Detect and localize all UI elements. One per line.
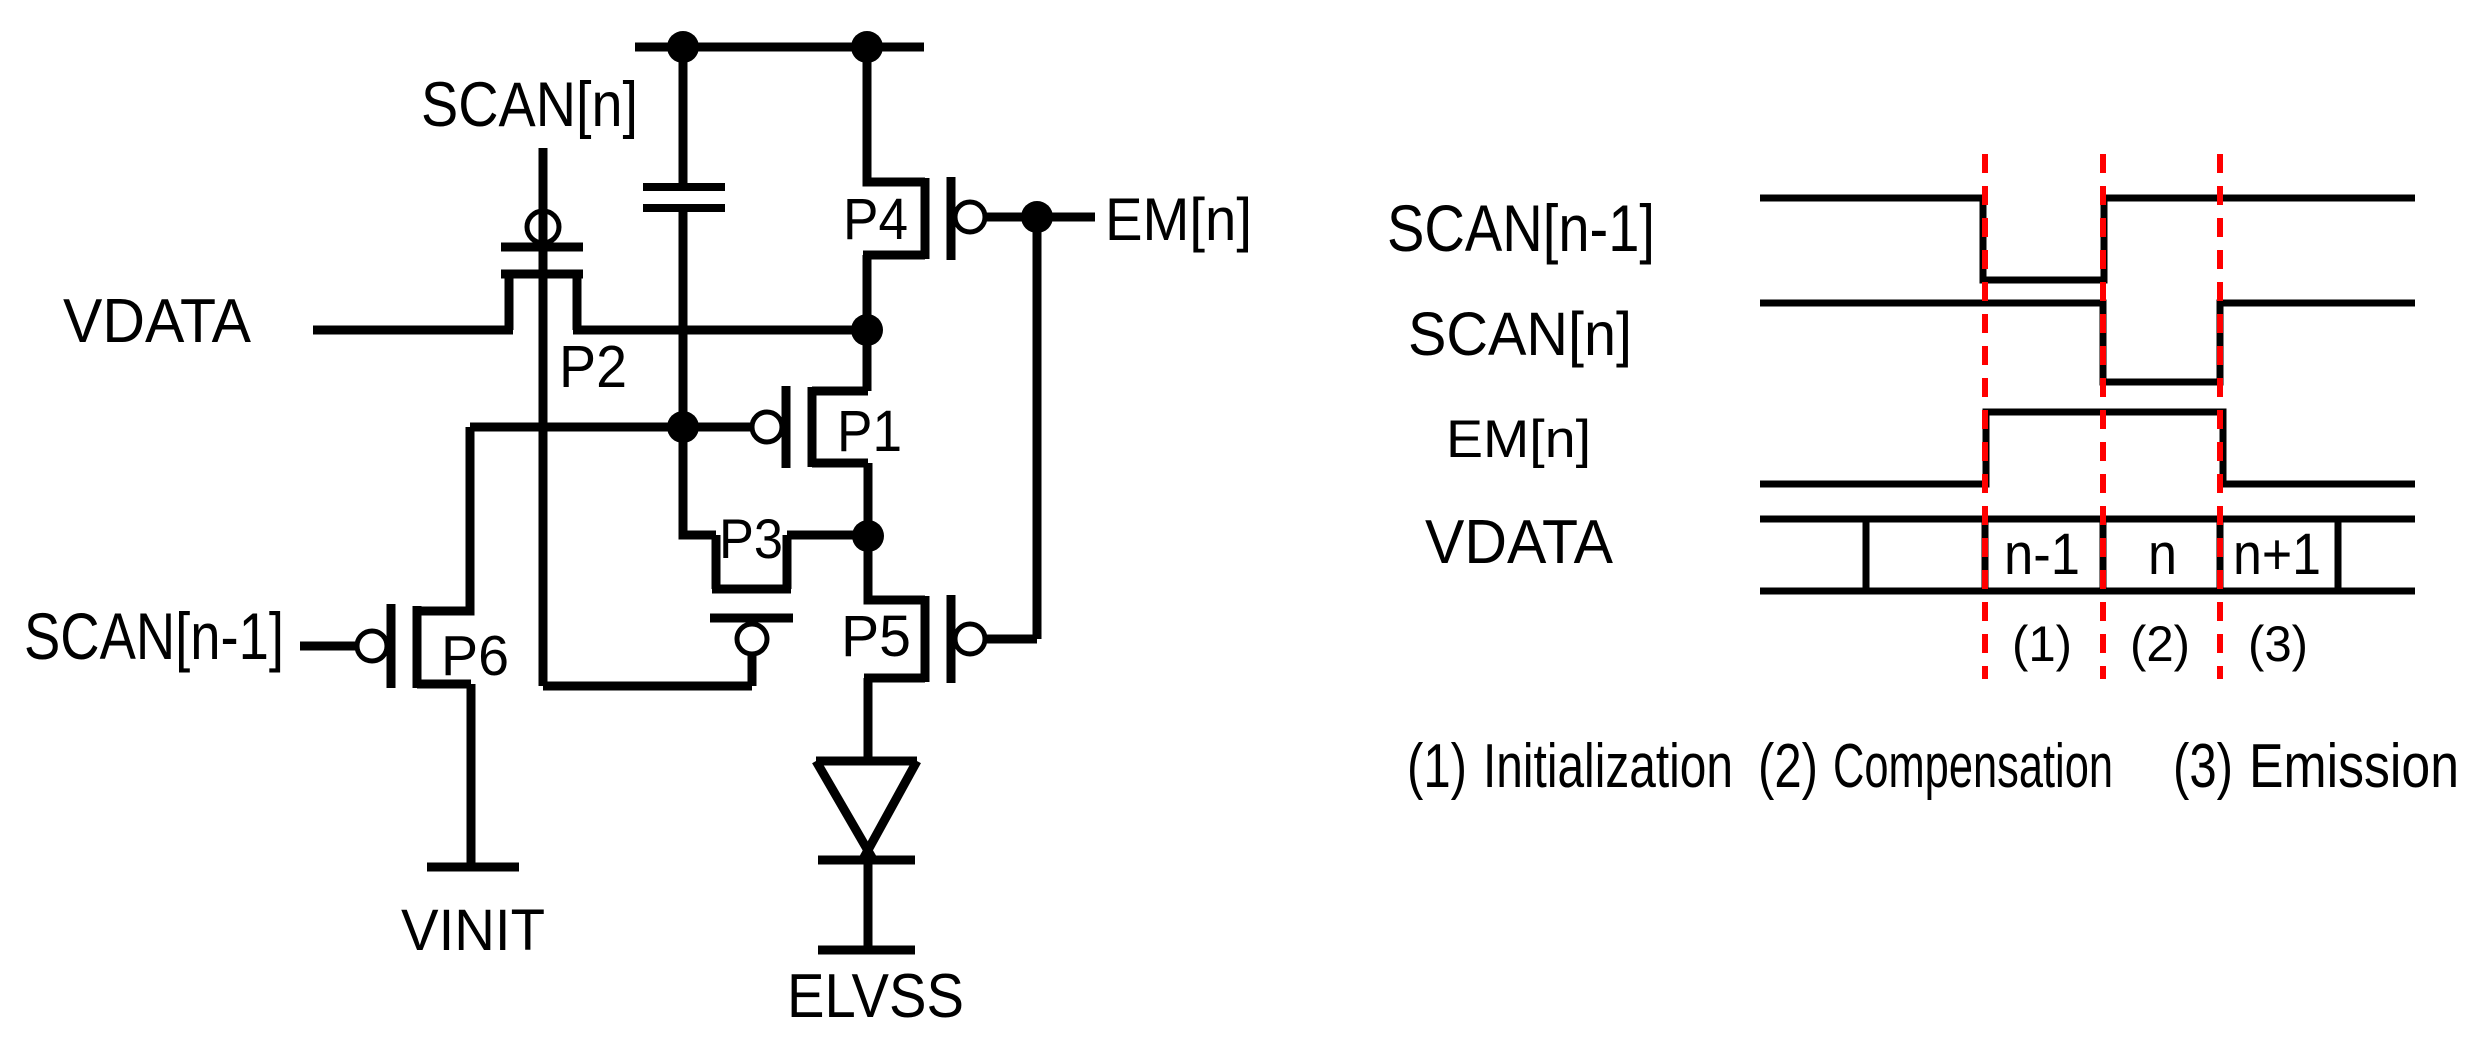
transistor P1 bbox=[786, 386, 868, 468]
svg-text:Initialization: Initialization bbox=[1483, 732, 1733, 801]
transistor P2 bbox=[501, 247, 583, 330]
svg-text:SCAN[n-1]: SCAN[n-1] bbox=[1387, 191, 1655, 265]
wire SCAN[n-1] to P6 gate bbox=[300, 642, 358, 651]
wire P3 to node D bbox=[787, 531, 869, 540]
svg-text:(2): (2) bbox=[2130, 616, 2190, 672]
svg-text:n-1: n-1 bbox=[2004, 522, 2080, 587]
junction dot EM node bbox=[1021, 201, 1053, 233]
wire node D to P5 bbox=[868, 536, 925, 600]
svg-text:Compensation: Compensation bbox=[1833, 732, 2113, 801]
phase divider red dashed 2 bbox=[2100, 154, 2106, 679]
transistor P5 gate bubble bbox=[955, 624, 985, 654]
wire P6 source to VINIT bbox=[467, 684, 476, 867]
junction dot ELVDD-P4 bbox=[851, 31, 883, 63]
svg-text:Emission: Emission bbox=[2249, 732, 2459, 801]
transistor P4 gate bubble bbox=[955, 202, 985, 232]
svg-text:(1): (1) bbox=[1407, 732, 1467, 801]
VDATA bus separator 4 bbox=[2217, 519, 2224, 591]
wire VDATA to P2 bbox=[313, 326, 513, 335]
wire node S to P1 drain bbox=[863, 330, 872, 391]
diode OLED cathode bar bbox=[818, 856, 915, 865]
waveform SCAN[n] bbox=[1760, 303, 2415, 382]
wire P3 gate down bbox=[748, 654, 757, 686]
ground VINIT bar bbox=[427, 863, 519, 872]
wire node G to P6 bbox=[417, 427, 470, 611]
svg-text:n: n bbox=[2148, 522, 2177, 587]
svg-text:VINIT: VINIT bbox=[401, 898, 545, 963]
svg-text:(2): (2) bbox=[1758, 732, 1818, 801]
transistor P6 gate bubble bbox=[357, 631, 387, 661]
junction dot node S bbox=[851, 314, 883, 346]
svg-text:EM[n]: EM[n] bbox=[1105, 186, 1252, 253]
VDATA bus separator 2 bbox=[1982, 519, 1989, 591]
waveform VDATA bus top bbox=[1760, 516, 2415, 523]
transistor P4 bbox=[863, 177, 951, 260]
transistor P1 gate bubble bbox=[752, 412, 782, 442]
waveform EM[n] bbox=[1760, 412, 2415, 484]
wire P2 to node S (P4/P1) bbox=[573, 326, 867, 335]
VDATA bus separator 5 bbox=[2335, 519, 2342, 591]
wire rail to P4 bbox=[867, 47, 925, 182]
svg-text:P2: P2 bbox=[559, 334, 627, 400]
svg-text:ELVSS: ELVSS bbox=[787, 962, 964, 1031]
svg-text:VDATA: VDATA bbox=[63, 287, 252, 356]
wire P4 gate to EM node bbox=[985, 213, 1095, 222]
waveform SCAN[n-1] bbox=[1760, 198, 2415, 280]
svg-text:(3): (3) bbox=[2173, 732, 2233, 801]
wire P5 gate to EM vertical bbox=[985, 635, 1037, 644]
transistor P5 bbox=[864, 595, 951, 683]
svg-text:VDATA: VDATA bbox=[1425, 508, 1614, 577]
svg-text:P5: P5 bbox=[841, 604, 911, 669]
ground ELVSS bar bbox=[818, 946, 915, 955]
svg-text:(1): (1) bbox=[2012, 616, 2072, 672]
wire rail to capacitor C1 bbox=[679, 47, 688, 184]
wire P1 source to node D bbox=[864, 463, 873, 536]
svg-text:P4: P4 bbox=[843, 187, 908, 252]
svg-text:P1: P1 bbox=[837, 399, 902, 464]
wire OLED cathode to ELVSS bbox=[864, 860, 873, 946]
transistor P6 bbox=[391, 604, 471, 688]
svg-text:P3: P3 bbox=[719, 507, 783, 570]
svg-text:SCAN[n]: SCAN[n] bbox=[1408, 300, 1632, 368]
phase divider red dashed 1 bbox=[1982, 154, 1988, 679]
svg-text:n+1: n+1 bbox=[2233, 522, 2321, 587]
svg-text:SCAN[n-1]: SCAN[n-1] bbox=[24, 599, 284, 673]
capacitor C1 bbox=[643, 187, 725, 208]
svg-text:SCAN[n]: SCAN[n] bbox=[421, 70, 638, 140]
wire ELVDD top rail bbox=[635, 43, 924, 52]
junction dot node D bbox=[852, 520, 884, 552]
svg-text:(3): (3) bbox=[2248, 616, 2308, 672]
diode OLED bbox=[816, 761, 917, 861]
transistor P2 gate bubble bbox=[527, 211, 559, 243]
svg-text:P6: P6 bbox=[441, 624, 509, 688]
wire SCAN[n] to P3 gate bbox=[543, 682, 752, 691]
wire node G down to P3 bbox=[683, 427, 716, 535]
VDATA bus separator 1 bbox=[1863, 519, 1870, 591]
svg-text:EM[n]: EM[n] bbox=[1446, 410, 1591, 469]
VDATA bus separator 3 bbox=[2100, 519, 2107, 591]
wire EM vertical bbox=[1033, 217, 1042, 639]
wire capacitor to node G bbox=[679, 212, 688, 427]
wire P5 source to OLED anode bbox=[864, 678, 873, 765]
waveform VDATA bus bottom bbox=[1760, 588, 2415, 595]
junction dot node G bbox=[667, 411, 699, 443]
transistor P3 bbox=[710, 535, 793, 618]
transistor P3 gate bubble bbox=[737, 624, 767, 654]
phase divider red dashed 3 bbox=[2217, 154, 2223, 679]
wire P4 source down to node S bbox=[863, 255, 872, 330]
wire node G horizontal bbox=[470, 423, 752, 432]
wire SCAN[n] vertical bbox=[539, 148, 548, 686]
junction dot ELVDD-cap bbox=[667, 31, 699, 63]
